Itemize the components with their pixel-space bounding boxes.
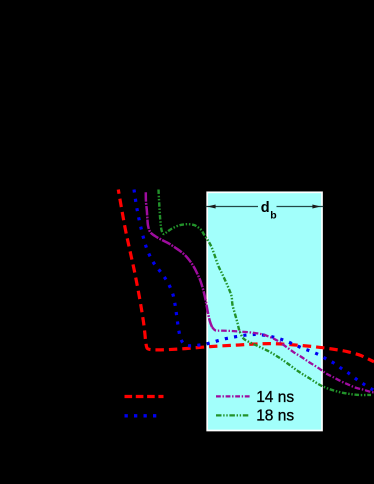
legend marker 18ns green (216, 414, 250, 416)
curve 14ns purple dash-dot (212, 327, 374, 392)
legend marker 12ns blue (125, 414, 157, 417)
svg-text:14 ns: 14 ns (256, 389, 294, 406)
curve 12ns blue dotted (134, 190, 374, 391)
legend marker 14ns purple (216, 395, 251, 397)
svg-text:18 ns: 18 ns (256, 407, 294, 424)
curve 14ns purple dash-dot vertical part (146, 192, 212, 327)
svg-text:d: d (261, 200, 270, 216)
svg-text:b: b (270, 209, 276, 221)
curve 10ns red dashed (118, 190, 374, 362)
d_b dimension arrow (206, 205, 323, 209)
legend marker 10ns red (125, 395, 164, 398)
curve 18ns green dash-dot-dot (159, 190, 372, 396)
shaded bubble region box (207, 192, 322, 430)
